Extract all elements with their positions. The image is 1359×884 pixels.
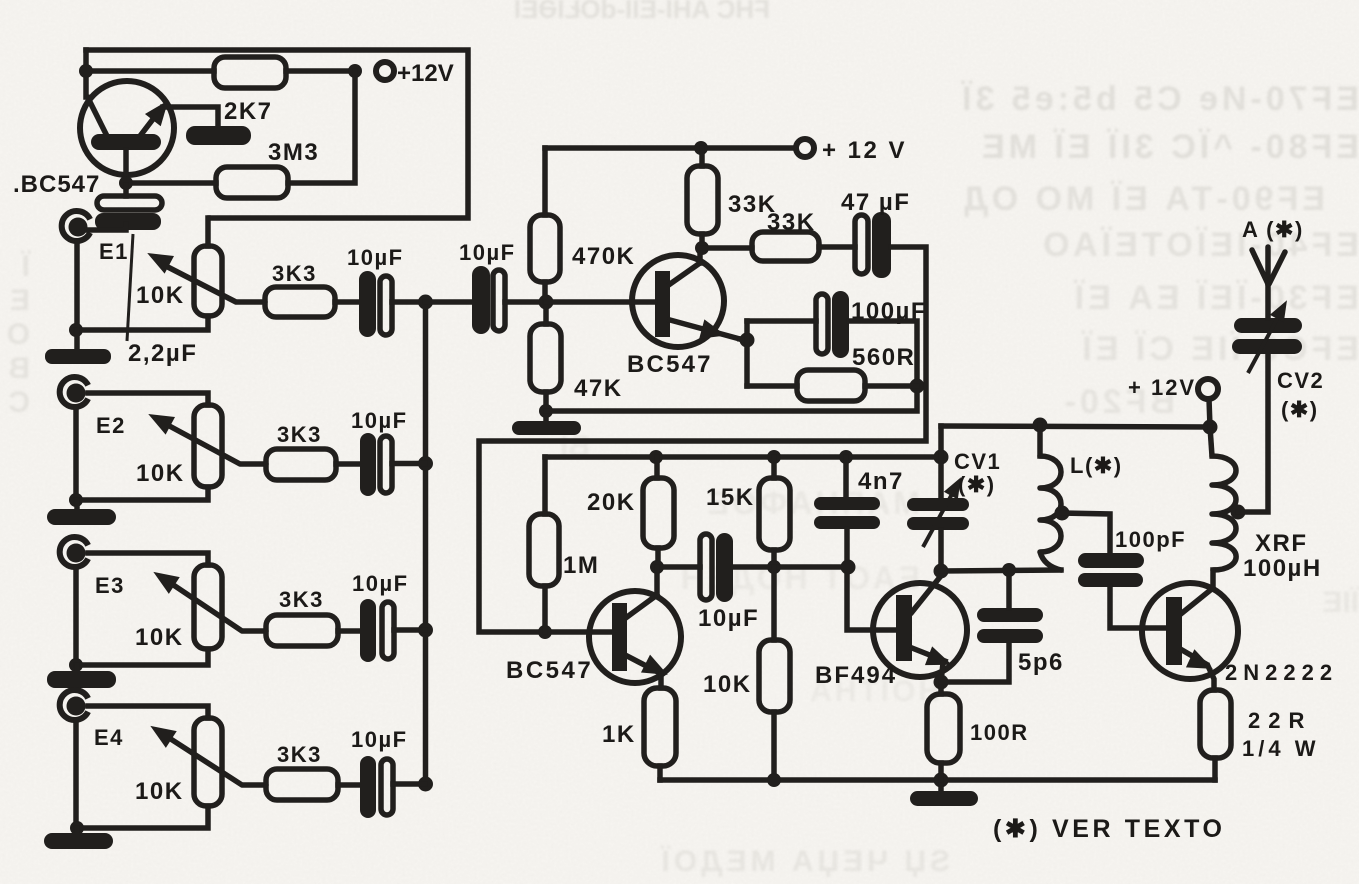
value 3K3 E3 [279, 587, 324, 612]
svg-text:22R: 22R [1248, 708, 1312, 733]
label CV2 [1277, 368, 1324, 422]
antenna A(*) [1252, 247, 1285, 318]
capacitor 100uF [816, 291, 849, 358]
label E3 [95, 573, 125, 598]
svg-text:100µH: 100µH [1243, 555, 1322, 582]
capacitor 10uF coupling [472, 266, 505, 334]
svg-text:47 µF: 47 µF [841, 189, 910, 216]
svg-text:10K: 10K [135, 624, 184, 651]
wire 100uF to loop right [849, 321, 917, 386]
note VER TEXTO [993, 815, 1226, 843]
node CV1 bottom collector Q4 [934, 564, 949, 579]
resistor 33K horizontal [752, 232, 819, 261]
svg-text:CV2: CV2 [1277, 368, 1324, 393]
wire +12V rail mid [545, 145, 796, 151]
wire E1 ground leg [74, 241, 80, 330]
svg-text:47K: 47K [574, 375, 623, 402]
svg-text:15K: 15K [706, 484, 755, 511]
capacitor 47uF [855, 212, 891, 278]
node bus E2 [418, 456, 433, 471]
inductor L(*) [1040, 425, 1061, 570]
value 47K [574, 375, 623, 402]
node +12V junction [348, 64, 362, 78]
svg-text:2N2222: 2N2222 [1225, 660, 1338, 685]
value 10uF coupling [459, 240, 516, 265]
node E1 ground [69, 323, 83, 337]
svg-text:+ 12V: + 12V [1128, 375, 1196, 400]
capacitor 5p6 [977, 570, 1043, 643]
svg-text:10µF: 10µF [347, 245, 404, 270]
node 33K top [694, 141, 708, 155]
node E2 ground [69, 493, 83, 507]
wire pot E1 bottom row [76, 316, 208, 330]
node at left rail y71 [79, 64, 93, 78]
svg-text:10K: 10K [136, 282, 185, 309]
node rail CV1 [934, 450, 949, 465]
svg-text:(✱): (✱) [1281, 397, 1319, 422]
resistor 15K [759, 457, 790, 567]
svg-text:100R: 100R [970, 720, 1029, 745]
resistor 2K7 [214, 57, 286, 88]
wire cap E1 to bus [392, 299, 425, 305]
node 20K bottom collector Q3 [650, 560, 664, 574]
value 10uF E4 [351, 727, 408, 752]
trimmer CV1 [907, 426, 969, 571]
terminal E1 jack [62, 211, 90, 241]
wire emitter ground rail [546, 386, 917, 411]
label L(*) [1070, 453, 1123, 478]
wire 3M3 branch from +12V node [288, 71, 355, 183]
node Q2 collector [695, 241, 709, 255]
svg-text:XRF: XRF [1255, 530, 1308, 557]
value 3K3 E4 [277, 742, 322, 767]
wire 3M3 to base node [126, 180, 216, 186]
value 10uF oscillator [698, 605, 759, 632]
value 10K E1 [136, 282, 185, 309]
resistor 10K oscillator [759, 567, 790, 780]
node E3 ground [69, 658, 83, 672]
node loop right [910, 379, 925, 394]
node Q2 emitter [740, 333, 755, 348]
svg-text:(✱) VER TEXTO: (✱) VER TEXTO [993, 815, 1226, 843]
value 560R [852, 344, 915, 371]
potentiometer 10K E3 [148, 564, 266, 649]
terminal +12V right [1198, 379, 1218, 427]
node 1M bottom [538, 625, 552, 639]
wire XRF tap to CV2 [1238, 354, 1268, 512]
label 2N2222 [1225, 660, 1338, 685]
svg-text:560R: 560R [852, 344, 915, 371]
wire cap E4 to bus [393, 781, 425, 787]
resistor 3K3 E2 [266, 449, 336, 480]
wire cap to base node [505, 299, 546, 305]
wire 3K3 to cap E2 [336, 461, 360, 467]
label CV1 [954, 449, 1001, 497]
value 1M [563, 552, 599, 579]
resistor 1M [529, 457, 559, 632]
node bus E1 [418, 295, 433, 310]
wire 3K3 to cap E3 [338, 628, 360, 634]
terminal E2 jack [60, 377, 88, 407]
value 10K E3 [135, 624, 184, 651]
trimmer CV2 [1232, 296, 1302, 373]
transistor Q2 BC547 [546, 248, 740, 347]
ground 47K [512, 411, 581, 435]
label BC547 Q3 [506, 657, 593, 684]
svg-text:L(✱): L(✱) [1070, 453, 1123, 478]
label E4 [94, 725, 124, 750]
value 3K3 E1 [272, 261, 317, 286]
potentiometer 10K E1 [143, 218, 265, 316]
terminal E3 jack [60, 537, 88, 567]
svg-text:+12V: +12V [397, 60, 454, 87]
wire 3K3 to cap E1 [335, 299, 359, 305]
svg-text:3K3: 3K3 [272, 261, 317, 286]
wire tank bottom row [941, 570, 1061, 571]
potentiometer 10K E2 [144, 405, 266, 487]
wire pot E4 bottom row [76, 806, 208, 828]
terminal E4 jack [60, 690, 88, 720]
node +12V XRF top [1203, 420, 1218, 435]
transistor Q5 2N2222 [1142, 570, 1238, 690]
wire 15K bottom to base rail BF494 [774, 564, 848, 570]
svg-text:1M: 1M [563, 552, 599, 579]
capacitor 10uF E2 [360, 433, 392, 496]
transistor Q3 BC547 [589, 567, 681, 688]
label +12V [397, 60, 454, 87]
svg-text:10µF: 10µF [459, 240, 516, 265]
svg-text:1K: 1K [602, 721, 636, 748]
wire E4 to pot [88, 706, 208, 718]
svg-text:E1: E1 [99, 239, 129, 264]
svg-text:BF494: BF494 [815, 662, 897, 689]
svg-text:3K3: 3K3 [277, 422, 322, 447]
faint page bleed-through artifacts [470, 0, 770, 25]
wire pot E2 bottom row [76, 487, 208, 500]
terminal +12V mid [796, 139, 814, 157]
svg-text:10µF: 10µF [352, 571, 409, 596]
ground main [910, 780, 978, 806]
value 10K oscillator [703, 671, 752, 698]
wire 2K7 to +12V node [286, 68, 355, 74]
svg-text:2,2µF: 2,2µF [128, 340, 197, 367]
value 100pF [1115, 527, 1186, 552]
svg-text:10µF: 10µF [351, 727, 408, 752]
ground E3 [47, 665, 116, 688]
svg-text:3K3: 3K3 [279, 587, 324, 612]
node L tap [1055, 506, 1070, 521]
svg-text:10K: 10K [703, 671, 752, 698]
resistor 1K [644, 688, 676, 780]
node 15K top [767, 450, 781, 464]
svg-text:10µF: 10µF [351, 408, 408, 433]
wire cap E2 to bus [392, 461, 425, 467]
svg-text:3K3: 3K3 [277, 742, 322, 767]
svg-text:+ 12 V: + 12 V [822, 137, 907, 164]
resistor 22R 1/4W [1200, 690, 1231, 780]
node 15K bottom [767, 560, 781, 574]
value 10K E2 [136, 460, 185, 487]
label +12V mid [822, 137, 907, 164]
resistor 560R [797, 370, 865, 401]
resistor 3K3 E3 [266, 615, 338, 646]
value 3K3 E2 [277, 422, 322, 447]
resistor 470K [530, 148, 560, 302]
wire bus to coupling cap [425, 299, 472, 305]
svg-text:E2: E2 [96, 413, 126, 438]
value 47uF [841, 189, 910, 216]
wire E1 to capacitor [87, 224, 126, 230]
wire oscillator top rail [545, 454, 941, 460]
node 5p6 top [1002, 563, 1016, 577]
terminal +12V top-left [376, 62, 394, 80]
node bus E3 [418, 623, 433, 638]
label +12V right [1128, 375, 1196, 400]
resistor 3K3 E1 [265, 287, 335, 317]
value 10uF E2 [351, 408, 408, 433]
resistor 33K vertical [687, 148, 718, 248]
wire pot E3 bottom row [76, 649, 208, 665]
svg-text:10K: 10K [136, 460, 185, 487]
capacitor 2,2uF plate A [97, 185, 162, 210]
wire E3 ground leg [73, 567, 79, 665]
svg-text:4n7: 4n7 [858, 468, 904, 495]
node L top [1033, 418, 1048, 433]
label E1 [99, 239, 129, 264]
wire left rail to Q1 collector [83, 50, 89, 97]
node main ground [934, 773, 949, 788]
value 3M3 [268, 139, 319, 166]
transistor Q1 BC547 [80, 81, 218, 183]
wire L tap to 100pF [1062, 513, 1110, 554]
svg-text:1/4 W: 1/4 W [1242, 736, 1319, 761]
wire loop bottom left [747, 383, 797, 389]
wire 33K to 47uF [819, 244, 855, 250]
node 4n7 base junction [841, 560, 856, 575]
wire 560R to loop right [865, 383, 917, 389]
svg-text:20K: 20K [587, 489, 636, 516]
wire collector to 33K horizontal [702, 245, 752, 251]
value 10uF E1 [347, 245, 404, 270]
label A(*) [1242, 217, 1304, 242]
label BC547 [13, 171, 100, 198]
capacitor 10uF E1 [359, 271, 392, 337]
value 20K [587, 489, 636, 516]
svg-text:33K: 33K [767, 209, 816, 236]
node E4 ground [70, 821, 84, 835]
wire E2 ground leg [73, 407, 79, 500]
inductor XRF 100uH [1210, 427, 1236, 570]
ground E2 [47, 500, 116, 525]
value 33K horizontal [767, 209, 816, 236]
value 22R [1248, 708, 1312, 733]
resistor 20K [643, 457, 674, 567]
wire top rail of preamp block [86, 50, 468, 218]
svg-text:A (✱): A (✱) [1242, 217, 1304, 242]
node XRF tap [1231, 505, 1246, 520]
value 470K [572, 243, 635, 270]
value 5p6 [1018, 649, 1064, 676]
capacitor 4n7 [814, 457, 896, 630]
value 2K7 [224, 98, 273, 125]
resistor 3K3 E4 [266, 769, 338, 800]
node divider Q2 base [539, 295, 554, 310]
svg-text:CV1: CV1 [954, 449, 1001, 474]
svg-text:2K7: 2K7 [224, 98, 273, 125]
ground E4 [44, 828, 113, 849]
ground E1 [45, 330, 111, 364]
wire E2 to pot [88, 393, 208, 405]
wire collector node to 10uF [657, 564, 700, 570]
wire 47uF down to oscillator feed [479, 247, 926, 632]
value 15K [706, 484, 755, 511]
potentiometer 10K E4 [145, 718, 266, 806]
emitter bar of Q1 [186, 126, 251, 145]
capacitor 2,2uF plate B [95, 213, 161, 230]
label BC547 Q2 [627, 351, 713, 378]
wire 5p6 branch [941, 643, 1009, 682]
svg-text:(✱): (✱) [958, 472, 996, 497]
resistor 47K [530, 302, 561, 411]
value 100R [970, 720, 1029, 745]
capacitor 10uF E4 [360, 756, 393, 818]
svg-text:BC547: BC547 [627, 351, 713, 378]
node 20K top [649, 450, 663, 464]
wire loop top to 100uF [747, 318, 816, 324]
resistor 3M3 [216, 167, 288, 198]
svg-text:E4: E4 [94, 725, 124, 750]
capacitor 10uF oscillator [700, 533, 733, 602]
wire mixer bus [423, 302, 429, 784]
svg-text:BC547: BC547 [506, 657, 593, 684]
label BF494 [815, 662, 897, 689]
wire cap E3 to bus [394, 627, 425, 633]
wire emitter loop left [740, 321, 747, 386]
wire tank top rail [941, 426, 1210, 427]
resistor 100R [927, 682, 960, 780]
transistor Q4 BF494 [873, 577, 967, 682]
label XRF 100uH [1243, 530, 1322, 582]
value 10K E4 [135, 778, 184, 805]
value 100uF [851, 298, 927, 325]
capacitor 10uF E3 [360, 599, 394, 662]
value 1K [602, 721, 636, 748]
node bus E4 [418, 777, 433, 792]
wire E4 ground leg [73, 720, 79, 828]
value 10uF E3 [352, 571, 409, 596]
capacitor 100pF [1078, 553, 1166, 628]
svg-text:.BC547: .BC547 [13, 171, 100, 198]
value 33K vertical [728, 191, 777, 218]
wire +12V feed row [86, 68, 214, 74]
value 2,2uF [128, 340, 197, 367]
svg-text:10K: 10K [135, 778, 184, 805]
value 2,2uF pointer [127, 234, 133, 341]
value 4n7 [858, 468, 904, 495]
wire bottom ground rail [660, 777, 1215, 783]
node 47K ground [539, 404, 553, 418]
svg-text:E3: E3 [95, 573, 125, 598]
wire E3 to pot [88, 553, 208, 565]
label E2 [96, 413, 126, 438]
svg-text:3M3: 3M3 [268, 139, 319, 166]
svg-text:100pF: 100pF [1115, 527, 1186, 552]
svg-text:10µF: 10µF [698, 605, 759, 632]
value 1/4W [1242, 736, 1319, 761]
node Q4 emitter [934, 675, 949, 690]
svg-text:470K: 470K [572, 243, 635, 270]
svg-text:5p6: 5p6 [1018, 649, 1064, 676]
wire 3K3 to cap E4 [338, 782, 360, 788]
wire 10uF to 15K bottom [733, 564, 774, 570]
node 10K bottom [767, 773, 781, 787]
node 4n7 top [839, 450, 853, 464]
node base of Q1 [119, 176, 133, 190]
